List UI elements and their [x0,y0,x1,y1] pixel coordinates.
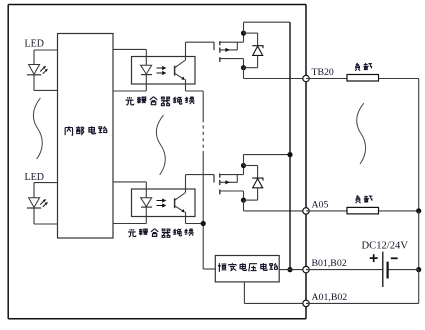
svg-text:LED: LED [25,39,44,50]
svg-text:A01,B02: A01,B02 [312,292,348,303]
svg-text:LED: LED [25,172,44,183]
svg-text:TB20: TB20 [312,67,334,78]
svg-text:DC12/24V: DC12/24V [362,241,409,252]
svg-text:B01,B02: B01,B02 [312,258,347,269]
svg-text:A05: A05 [312,199,329,210]
